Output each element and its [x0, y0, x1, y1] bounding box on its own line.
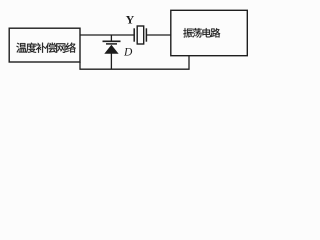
crystal Y [134, 26, 146, 44]
wire: left box to crystal [80, 34, 135, 36]
svg-text:D: D [123, 46, 133, 58]
label text: right box 振荡电路 [183, 28, 220, 37]
block: temperature compensation network box [9, 28, 80, 62]
block: oscillator circuit box [171, 10, 248, 55]
svg-text:Y: Y [126, 12, 135, 26]
label text: left box 温度补偿网络 [16, 43, 75, 53]
diode D (varactor) [103, 35, 121, 69]
wire: bottom bus from left box to right box [80, 56, 189, 69]
wire: crystal to right box [146, 34, 171, 36]
